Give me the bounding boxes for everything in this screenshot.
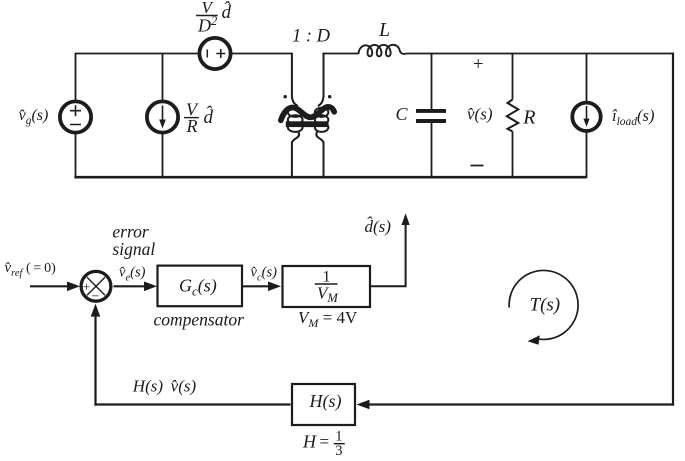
transformer core bar — [286, 121, 329, 127]
wire branch of V/R current source — [162, 54, 164, 179]
transformer polarity dot primary — [284, 95, 287, 98]
svg-text:1 : D: 1 : D — [292, 27, 331, 47]
wire feedback bottom left from H block — [94, 403, 290, 405]
svg-text:d̂(s): d̂(s) — [365, 217, 392, 236]
wire Gc to 1/VM block — [243, 285, 271, 287]
capacitor C branch wires — [431, 54, 433, 179]
svg-text:Gc(s): Gc(s) — [179, 276, 217, 299]
PWM block 1/VM — [283, 266, 371, 307]
wire bottom rail — [74, 176, 586, 179]
transformer 1:D — [288, 53, 329, 179]
svg-text:d̂: d̂ — [204, 106, 214, 128]
arrowhead into summing junction left — [67, 282, 80, 292]
svg-text:R: R — [522, 107, 535, 129]
svg-text:H(s) v̂(s): H(s) v̂(s) — [132, 377, 197, 396]
svg-text:=: = — [320, 432, 330, 451]
node minus label output — [471, 165, 484, 167]
arrowhead into summing junction — [91, 304, 101, 317]
current source V/R d — [147, 101, 178, 132]
arrowhead into 1/VM block — [268, 282, 281, 292]
wire top rail left section — [76, 53, 199, 55]
wire 1/VM block to d-hat output — [370, 223, 406, 286]
wire summing junction to Gc block — [114, 285, 148, 287]
wire right feedback rail down — [672, 53, 674, 406]
loop gain T(s) arc — [509, 270, 578, 339]
resistor R zigzag — [507, 100, 519, 132]
wire feedback bottom right into H block — [367, 403, 674, 405]
voltage source V/D^2 d — [199, 38, 230, 69]
transformer ideal squiggle — [281, 107, 334, 120]
resistor R branch wires — [512, 54, 514, 179]
svg-text:VM = 4V: VM = 4V — [298, 308, 358, 330]
svg-text:+: + — [83, 281, 91, 296]
transformer secondary winding — [318, 53, 324, 106]
capacitor C plates — [416, 109, 446, 113]
current source i_load — [572, 103, 600, 131]
svg-text:H: H — [302, 432, 317, 452]
svg-text:d̂: d̂ — [222, 1, 232, 23]
wire feedback left rail up to summing junction — [94, 314, 96, 406]
wire top rail right section — [406, 53, 674, 55]
svg-text:H(s): H(s) — [309, 391, 342, 412]
arrowhead into H block — [357, 400, 370, 410]
compensator block Gc(s) — [158, 266, 243, 307]
svg-text:T(s): T(s) — [530, 295, 561, 316]
transformer primary winding — [292, 53, 298, 106]
arrowhead d-hat up — [402, 213, 410, 225]
voltage source vg(s) — [60, 101, 91, 132]
svg-text:L: L — [378, 19, 390, 41]
arrowhead into Gc block — [144, 282, 157, 292]
wire left rail of vg source — [75, 53, 77, 179]
svg-text:v̂(s): v̂(s) — [467, 105, 493, 124]
svg-text:+: + — [473, 55, 483, 75]
current source i_load branch wires — [586, 54, 588, 179]
summing junction — [81, 271, 111, 301]
svg-text:v̂g(s): v̂g(s) — [19, 107, 49, 127]
svg-text:compensator: compensator — [154, 310, 245, 330]
svg-text:−: − — [92, 290, 100, 305]
transformer polarity dot secondary — [328, 95, 331, 98]
wire reference input — [30, 285, 70, 287]
svg-text:R: R — [186, 116, 198, 136]
svg-text:signal: signal — [112, 239, 155, 259]
svg-text:3: 3 — [335, 443, 342, 459]
wire top rail right of d-hat source to transformer primary top — [232, 53, 292, 55]
H(s) block — [292, 384, 355, 425]
svg-text:C: C — [396, 104, 409, 124]
wire secondary top to inductor — [324, 53, 359, 55]
inductor L — [358, 45, 405, 57]
arrowhead T(s) — [528, 335, 540, 345]
